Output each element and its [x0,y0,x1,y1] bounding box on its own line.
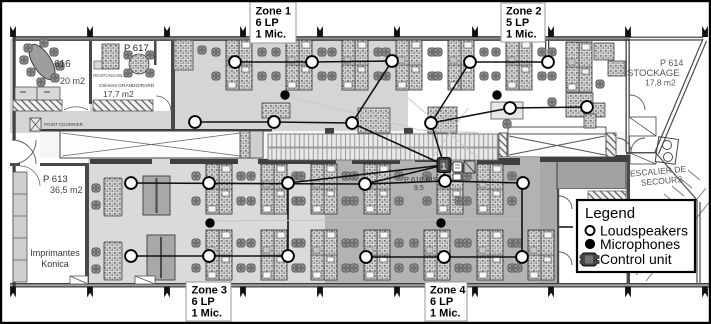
loudspeaker LP16 zone3 [203,250,215,262]
radiator bottom right [588,191,626,200]
loudspeaker LP3 zone1 [386,55,398,67]
wire zone4 vertical [521,183,523,257]
wire zone1 top row [235,61,392,62]
P617 small table [94,61,102,69]
floor: dark block right [557,161,626,189]
zone box 4 [425,282,467,321]
svg-text:1 Mic.: 1 Mic. [256,29,287,41]
loudspeaker LP17 zone3 [282,250,294,262]
point courrier icon [30,118,41,131]
left single desk [174,40,193,70]
desk cluster right of zone2 [566,42,592,92]
wire zone2 trunk [431,123,444,165]
loudspeaker LP8 zone2 [542,56,554,68]
oval table P616 [24,40,60,83]
svg-text:Control unit: Control unit [600,251,672,267]
chairs bottom section [192,172,200,180]
loudspeaker LP9 zone2 [504,102,516,114]
faint partition line [213,219,520,221]
svg-text:6 LP: 6 LP [430,296,453,308]
wall escalier left [627,158,630,284]
svg-text:17,7 m2: 17,7 m2 [103,89,134,99]
escalier stairs bottom right [636,170,711,281]
floor: bottom section light gray [88,158,325,286]
top wall [13,36,630,41]
stairs central [268,134,498,160]
svg-text:1: 1 [441,162,447,173]
stockage crossed cabinet [629,117,656,136]
chairs around oval [24,44,32,52]
loudspeaker LP12 zone3 [125,177,137,189]
wire zone4 row1 [365,181,523,184]
loudspeaker LP13 zone3 [203,177,215,189]
svg-text:17,8 m2: 17,8 m2 [645,78,676,88]
wire zone3 trunk [288,165,444,183]
svg-text:36,5 m2: 36,5 m2 [50,185,83,195]
P613 left cabinets [13,172,27,282]
window markers bottom [10,287,16,298]
corridor middle white [40,131,630,158]
wire zone3 row1 [131,183,365,184]
wall stockage bottom [626,152,658,155]
loudspeaker LP1 zone1 [229,56,241,68]
floor: alcove strip [540,162,558,284]
floor: zone1 open space gray [10,39,408,133]
loudspeaker LP19 zone4 [439,175,451,187]
door arc stockage [630,95,645,110]
svg-text:P 614: P 614 [660,58,683,68]
room P613 white [10,165,86,284]
cluster G near corridor [358,108,390,133]
window markers top [10,26,16,37]
svg-text:Konica: Konica [41,259,69,269]
P617 right wall stub [154,41,157,65]
bottom section desks row1 [206,164,232,214]
microphone zone3 [205,218,214,227]
wall P616/P617 divider [89,41,92,104]
svg-text:20 m2: 20 m2 [60,76,85,86]
svg-text:P 613: P 613 [43,174,68,185]
door arc P616 [64,107,88,110]
cabinets P616 [15,87,37,100]
svg-text:1 Mic.: 1 Mic. [430,308,461,320]
entrance door arcs bottom-left [12,140,36,164]
svg-text:6 LP: 6 LP [192,296,215,308]
P613 top wall [10,163,20,166]
zone box 2 [501,3,545,42]
floor: bottom section darker gray [325,158,630,286]
P617 desk [102,44,119,69]
wire zone3 vertical [287,183,289,256]
radiator P617 [93,100,153,111]
radiator P616 [13,100,62,111]
text escalier [630,164,688,189]
corridor bottom dark wall band [90,159,152,164]
loudspeaker LP2 zone1 [306,56,318,68]
wall right of P617 [171,41,175,133]
loudspeaker LP4 zone1 [189,116,201,128]
loudspeaker LP6 zone1 [346,117,358,129]
microphone zone4 [436,218,445,227]
loudspeaker LP5 zone1 [268,116,280,128]
loudspeaker LP10 zone2 [581,101,593,113]
P617 round table [129,54,149,74]
microphone zone2 [492,90,501,99]
portrait desks [104,178,122,216]
svg-text:Zone 4: Zone 4 [430,285,466,297]
svg-text:5 LP: 5 LP [506,17,529,29]
svg-text:Imprimantes: Imprimantes [30,248,80,258]
cluster H near corridor [428,107,457,133]
elevator hatch strips [499,133,507,157]
loudspeaker LP18 zone4 [359,178,371,190]
microphone zone1 [280,90,289,99]
wc icons near control [453,162,462,172]
svg-text:Legend: Legend [585,205,635,222]
svg-text:P 617: P 617 [124,43,149,54]
svg-text:Microphones: Microphones [600,236,680,252]
control unit [437,158,451,173]
wire zone1 trunk [352,123,444,165]
loudspeaker LP20 zone4 [517,177,529,189]
loudspeaker LP15 zone3 [125,250,137,262]
door arcs small rooms [559,196,572,209]
svg-text:Zone 1: Zone 1 [256,6,291,18]
bottom section desks row2 [206,230,232,280]
top desk clusters zone1 [226,40,252,90]
svg-text:1 Mic.: 1 Mic. [192,308,223,320]
wire zone3 row2 [131,255,288,257]
door arc P617 [156,96,171,111]
point courrier ramp [60,131,263,158]
wire zone2 top [470,61,548,63]
wall stub x545 [545,41,546,58]
loudspeaker LP23 zone4 [516,251,528,263]
left outer wall [13,37,16,140]
loudspeaker LP22 zone4 [438,251,450,263]
zone box 1 [250,2,296,43]
loudspeaker LP7 zone2 [464,56,476,68]
loudspeaker LP11 zone2 [425,117,437,129]
svg-text:616: 616 [54,59,71,70]
small table zone1 [262,103,290,118]
wire zone4 row2 [366,256,522,258]
zone box 3 [186,282,231,321]
svg-text:Zone 2: Zone 2 [506,6,541,18]
svg-text:RESPONSABLE: RESPONSABLE [93,73,127,78]
hatched desk near circle 587 [588,103,605,117]
double door arcs right corridor [617,138,631,152]
loudspeaker LP21 zone4 [360,251,372,263]
top desk clusters zone2 [448,40,474,90]
wire zone1 bottom row [195,122,352,123]
wall small rooms left [557,189,559,284]
wire zone4 trunk [365,165,444,184]
corridor fan lines [290,97,478,158]
bottom wall [10,283,709,288]
room P616 white [12,41,90,111]
table zone2 [491,102,523,119]
wire zone1 drop [352,61,392,123]
wire zone2 mid [431,107,587,123]
floor: white small rooms bottom right [558,189,626,284]
corridor top wall line [40,129,272,132]
wall stockage left x626 [626,39,627,152]
legend [577,200,695,272]
svg-text:9,5: 9,5 [414,185,424,192]
room P617 white [92,41,173,111]
chairs top section [212,48,220,56]
ramp right [508,127,606,157]
loudspeaker LP14 zone3 [282,177,294,189]
toilet box right [655,137,678,165]
gray desks [143,176,170,215]
wire zone2 drop [431,62,470,123]
svg-text:Zone 3: Zone 3 [192,285,227,297]
wire control drop [444,165,445,181]
P613 right wall [85,163,89,284]
right facade chamfer [655,39,707,284]
svg-text:6 LP: 6 LP [256,17,279,29]
X door boxes bottom P613 [70,276,155,284]
svg-text:1 Mic.: 1 Mic. [506,29,537,41]
svg-text:POINT COURRIER: POINT COURRIER [44,122,84,127]
